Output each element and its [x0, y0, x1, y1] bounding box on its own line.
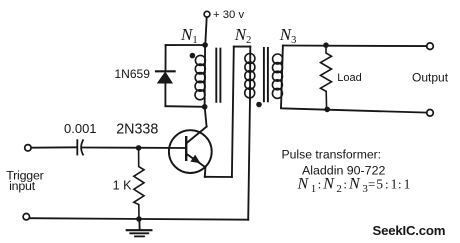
wire N2 left leg up [232, 47, 234, 177]
terminal trigger input top [25, 145, 31, 151]
diode 1N659 [156, 71, 175, 83]
capacitor C1 0.001 [77, 140, 83, 155]
svg-text::: : [385, 177, 389, 192]
svg-text:1N659: 1N659 [115, 67, 151, 81]
phase dot N2 [256, 102, 262, 108]
transformer winding N2 [234, 47, 255, 99]
resistor Load [321, 45, 332, 109]
svg-text:Pulse transformer:: Pulse transformer: [282, 147, 382, 161]
svg-text::: : [318, 177, 322, 192]
wire emitter down [204, 167, 207, 177]
transistor Q1 2N338 [169, 127, 212, 173]
svg-text:0.001: 0.001 [64, 121, 97, 136]
svg-text:2: 2 [336, 183, 342, 195]
wire diode bottom to N1 bottom [165, 105, 204, 108]
svg-text:N: N [322, 176, 335, 193]
wire diode anode lead [164, 83, 166, 106]
svg-text:1: 1 [404, 177, 411, 192]
wire N1 bottom to collector [205, 107, 207, 127]
resistor R1 1K [134, 148, 144, 219]
phase dot N1 [190, 53, 196, 59]
svg-text:N: N [348, 176, 361, 193]
svg-text:N2: N2 [234, 25, 252, 46]
svg-text:2N338: 2N338 [116, 121, 158, 137]
note turns ratio [297, 176, 411, 195]
wire N3 bottom to output [281, 108, 427, 113]
transformer winding N1 [195, 45, 205, 107]
transformer winding N3 [272, 46, 283, 108]
terminal trigger input bottom [23, 214, 29, 220]
wire N3 top to output [283, 45, 427, 48]
svg-text:N3: N3 [279, 25, 297, 46]
svg-text:Output: Output [412, 71, 449, 85]
wire emitter to N2 left leg [205, 176, 232, 178]
svg-text:N1: N1 [180, 25, 198, 46]
wire N2 bottom down to rail [248, 99, 250, 220]
node junction base / 1K top [136, 145, 142, 151]
wire diode cathode lead [165, 45, 167, 70]
svg-text:+ 30 v: + 30 v [213, 9, 244, 21]
svg-text::: : [343, 177, 347, 192]
svg-text:1: 1 [391, 177, 398, 192]
terminal output bottom [427, 110, 434, 117]
svg-text::: : [398, 177, 402, 192]
node junction load top [323, 42, 329, 48]
node junction N1 bottom [202, 104, 208, 110]
wire bottom rail [30, 218, 249, 220]
wire trigger to capacitor [31, 146, 76, 148]
terminal +30v [204, 11, 210, 17]
node junction 1K bottom [136, 216, 142, 222]
node junction load bottom [324, 107, 330, 113]
svg-text:1 K: 1 K [113, 179, 133, 193]
svg-text:N: N [297, 176, 310, 193]
svg-text:=: = [368, 177, 375, 192]
svg-text:1: 1 [311, 183, 317, 195]
svg-text:5: 5 [376, 177, 383, 192]
svg-text:SeekIC.com: SeekIC.com [373, 223, 446, 238]
transformer core bars left [216, 49, 220, 102]
ground [127, 220, 152, 237]
wire +30v down to N1 top [205, 17, 206, 44]
wire N1 top to diode cathode [166, 44, 206, 46]
transformer core bars right [264, 48, 268, 101]
node junction N1 top [202, 42, 208, 48]
svg-text:Aladdin 90-722: Aladdin 90-722 [302, 163, 385, 177]
svg-text:Load: Load [337, 72, 361, 84]
wire capacitor to base [82, 147, 187, 150]
svg-text:input: input [9, 179, 36, 193]
terminal output top [427, 43, 434, 50]
